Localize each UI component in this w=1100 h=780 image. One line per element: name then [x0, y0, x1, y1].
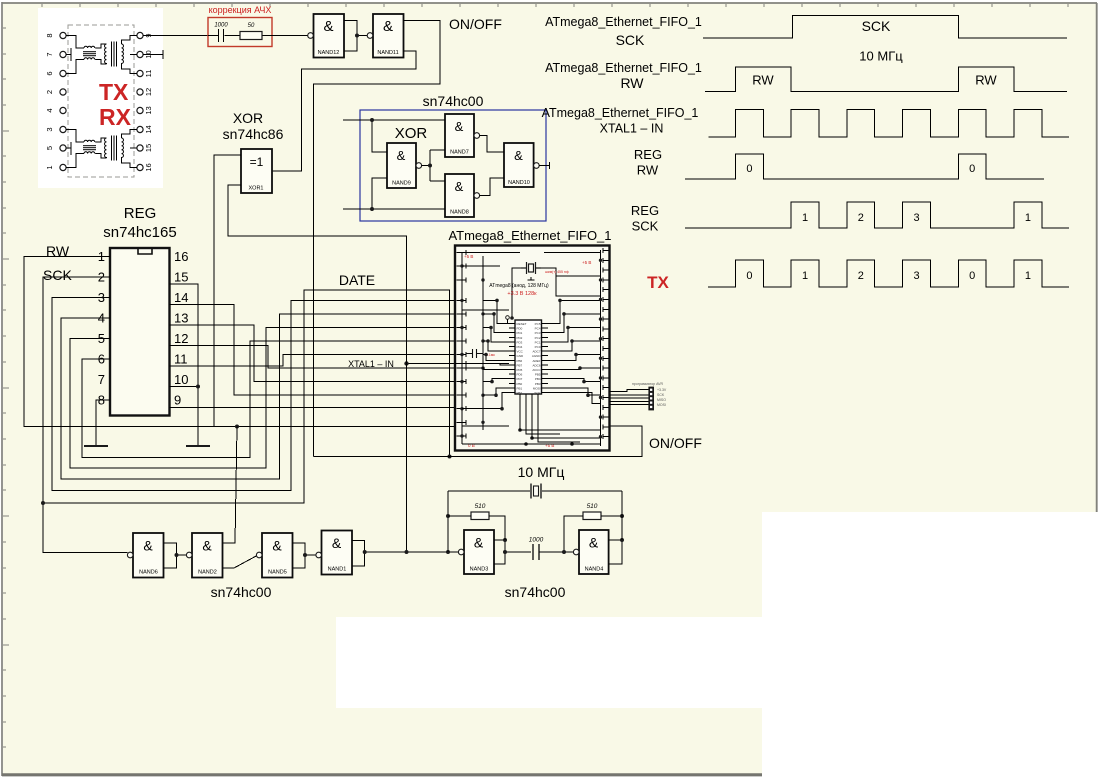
svg-text:NAND10: NAND10	[508, 180, 530, 186]
svg-text:1: 1	[1025, 270, 1031, 282]
nand gate NAND2	[192, 533, 223, 578]
svg-text:1: 1	[45, 165, 54, 169]
svg-text:4: 4	[45, 108, 54, 112]
svg-text:PD0: PD0	[517, 327, 523, 331]
svg-text:ATmega8 (анод, 128 МГц): ATmega8 (анод, 128 МГц)	[489, 283, 549, 289]
svg-text:GND: GND	[517, 354, 525, 358]
XOR1 input wire bottom to XTAL1 net	[228, 185, 407, 236]
nand gate NAND5	[262, 533, 293, 578]
oscillator right vertical	[621, 491, 623, 540]
svg-text:2: 2	[45, 90, 54, 94]
wire REG pin15 down to ground	[170, 284, 199, 445]
svg-text:12: 12	[144, 88, 153, 96]
NAND10 output wire	[539, 162, 549, 169]
svg-text:NAND7: NAND7	[450, 150, 469, 156]
svg-text:PD5: PD5	[517, 368, 523, 372]
ISP connector wires	[610, 389, 649, 404]
svg-text:3: 3	[913, 212, 919, 224]
svg-text:REG: REG	[631, 203, 659, 218]
svg-text:7: 7	[98, 372, 105, 387]
svg-text:коррекция АЧХ: коррекция АЧХ	[209, 5, 272, 15]
nand gate NAND10	[504, 143, 534, 187]
svg-text:&: &	[143, 538, 153, 554]
IC ATmega8 body	[515, 320, 542, 394]
tiny decoupling capacitor	[466, 349, 483, 358]
NAND7 output wire	[480, 136, 504, 153]
svg-text:MISO: MISO	[657, 398, 666, 402]
IC left step wires	[455, 300, 509, 408]
NAND12 input tie wires	[344, 21, 368, 52]
capacitor 1000	[533, 544, 539, 560]
svg-text:7: 7	[45, 52, 54, 56]
svg-text:RX: RX	[99, 104, 132, 130]
wire REG pin9 step to MCU	[170, 407, 456, 409]
svg-text:PB3: PB3	[535, 382, 541, 386]
NAND4 right pin ties	[609, 540, 622, 564]
resistor 510 right	[583, 512, 601, 520]
xor block input wire top	[343, 120, 445, 152]
svg-text:VCC: VCC	[517, 350, 524, 354]
transformer pin circles left	[60, 32, 66, 170]
ground symbol left	[84, 445, 108, 447]
svg-text:ADC6: ADC6	[532, 363, 540, 367]
svg-text:15: 15	[144, 144, 153, 152]
svg-text:MOSI: MOSI	[657, 403, 666, 407]
svg-text:PC5: PC5	[535, 322, 541, 326]
svg-text:NAND8: NAND8	[450, 210, 469, 216]
waveform row6 TX trace	[708, 260, 1069, 287]
svg-text:NAND9: NAND9	[392, 181, 411, 187]
nand gate NAND9	[387, 143, 416, 188]
svg-text:TX: TX	[99, 79, 129, 105]
ruler ticks top	[42, 4, 1068, 7]
svg-text:PC3: PC3	[535, 331, 541, 335]
oscillator top wire	[448, 490, 622, 492]
MCU crystal	[521, 262, 541, 274]
svg-text:SCK: SCK	[616, 32, 645, 48]
svg-text:&: &	[202, 538, 212, 554]
crystal 10 MHz	[531, 484, 541, 499]
wire REG pin13 step to MCU	[170, 325, 456, 382]
NAND8 output wire	[480, 178, 504, 196]
svg-text:PB4: PB4	[535, 377, 541, 381]
svg-text:RW: RW	[752, 73, 774, 88]
svg-text:sn74hc00: sn74hc00	[423, 93, 484, 109]
svg-text:&: &	[474, 535, 484, 551]
MCU top inner wires	[462, 253, 601, 267]
svg-text:PB7: PB7	[517, 363, 523, 367]
RX transformer windings	[66, 130, 137, 168]
svg-text:sn74hc86: sn74hc86	[223, 126, 284, 142]
svg-text:0: 0	[969, 163, 975, 175]
svg-text:&: &	[272, 538, 282, 554]
IC bottom drop wires	[462, 394, 601, 444]
svg-text:PC1: PC1	[535, 340, 541, 344]
svg-text:NAND5: NAND5	[268, 570, 287, 576]
nand gate NAND6	[133, 533, 164, 578]
ground symbol right	[186, 445, 210, 447]
blue block frame	[360, 110, 546, 221]
svg-text:PD7: PD7	[517, 377, 523, 381]
MCU left pin stubs	[457, 250, 466, 439]
svg-text:510: 510	[475, 503, 486, 510]
ISP connector body	[649, 387, 654, 410]
svg-text:RESET: RESET	[517, 322, 527, 326]
svg-text:&: &	[455, 179, 464, 194]
svg-text:PB5: PB5	[535, 373, 541, 377]
MCU right pin stubs	[603, 248, 608, 439]
wire REG pin14 step to MCU	[170, 305, 456, 396]
waveform row3 XTAL1 trace	[709, 110, 1069, 138]
svg-text:14: 14	[144, 125, 153, 133]
svg-text:5: 5	[45, 146, 54, 150]
transformer dashed body	[68, 25, 134, 177]
svg-text:NAND3: NAND3	[470, 567, 489, 573]
svg-text:SCK: SCK	[534, 391, 540, 395]
resistor 510 left	[471, 512, 489, 520]
NAND3 right pin ties	[494, 540, 531, 564]
svg-text:&: &	[323, 18, 333, 35]
wire REG pin5 loop up to MCU	[70, 328, 455, 469]
svg-text:8: 8	[45, 33, 54, 37]
svg-text:XTAL1 – IN: XTAL1 – IN	[348, 359, 394, 369]
svg-text:&: &	[455, 119, 464, 134]
extra inner horizontals	[462, 276, 601, 426]
svg-text:sn74hc00: sn74hc00	[505, 584, 566, 600]
svg-text:PD2: PD2	[517, 336, 523, 340]
svg-text:50: 50	[248, 23, 255, 29]
svg-text:&: &	[397, 148, 406, 163]
wire branch SCK to bundle	[43, 290, 450, 503]
wire REG pin2 SCK down to NAND6	[43, 277, 127, 553]
NAND2 bottom input switch diagonal	[223, 556, 257, 568]
oscillator left vertical	[447, 491, 449, 552]
svg-text:1000: 1000	[529, 537, 544, 544]
svg-text:NAND1: NAND1	[328, 567, 347, 573]
svg-text:AREF: AREF	[532, 359, 540, 363]
svg-text:14: 14	[174, 290, 188, 305]
IC notch	[138, 249, 152, 254]
nand gate NAND7	[445, 114, 474, 157]
svg-text:PD1: PD1	[517, 331, 523, 335]
IC REG body	[110, 248, 170, 416]
nand gate NAND3	[464, 530, 494, 574]
svg-text:11: 11	[174, 352, 188, 367]
svg-text:ATmega8_Ethernet_FIFO_1: ATmega8_Ethernet_FIFO_1	[545, 61, 702, 75]
svg-text:NAND6: NAND6	[139, 570, 158, 576]
svg-text:ON/OFF: ON/OFF	[449, 16, 502, 32]
svg-text:SCK: SCK	[632, 219, 659, 234]
svg-text:SCK: SCK	[43, 267, 72, 283]
wire REG pin1 RW long line	[24, 257, 455, 427]
white overlay rect bottom right	[762, 512, 1100, 780]
switch diagonal RW to NAND2	[223, 427, 238, 544]
svg-text:XOR1: XOR1	[249, 186, 264, 192]
svg-text:NAND2: NAND2	[198, 570, 217, 576]
svg-text:11: 11	[144, 70, 153, 78]
svg-text:NAND11: NAND11	[377, 50, 398, 56]
svg-text:DATE: DATE	[339, 272, 375, 288]
svg-text:13: 13	[144, 106, 153, 114]
NAND11 top input wire to ON/OFF net	[314, 21, 441, 457]
NAND5 input ties	[293, 543, 316, 568]
nand gate NAND8	[445, 174, 474, 217]
wire REG pin6 loop up to MCU	[82, 341, 455, 457]
svg-text:6: 6	[45, 71, 54, 75]
REG pin numbers right	[174, 249, 188, 408]
svg-text:&: &	[514, 148, 523, 163]
svg-text:PD6: PD6	[517, 373, 523, 377]
NAND6 input ties	[164, 543, 187, 568]
transformer white background	[38, 8, 163, 188]
svg-text:MOSI: MOSI	[533, 386, 541, 390]
nand gate NAND11	[373, 14, 404, 58]
svg-text:программатор AVR: программатор AVR	[632, 382, 663, 386]
IC tiny pin names	[517, 322, 527, 395]
svg-text:sn74hc165: sn74hc165	[103, 224, 176, 241]
svg-text:2: 2	[858, 212, 864, 224]
transformer pin numbers left (rotated)	[45, 33, 54, 169]
NAND9 output fan wires	[422, 150, 445, 181]
wire REG pin4 loop up to MCU	[61, 314, 455, 479]
svg-text:NAND4: NAND4	[585, 567, 604, 573]
svg-text:PB1: PB1	[517, 386, 523, 390]
resistor 50	[240, 32, 262, 40]
svg-text:ATmega8_Ethernet_FIFO_1: ATmega8_Ethernet_FIFO_1	[542, 106, 699, 120]
XTAL1-IN vertical	[406, 236, 408, 552]
svg-text:XOR: XOR	[233, 110, 263, 126]
svg-text:10 МГц: 10 МГц	[518, 464, 565, 480]
MCU left bus dots	[460, 264, 484, 437]
svg-text:9: 9	[174, 393, 181, 408]
right step junction dots	[484, 299, 590, 446]
svg-text:XOR: XOR	[395, 125, 428, 142]
IC pin stubs right	[542, 324, 549, 393]
svg-text:SCK: SCK	[862, 18, 891, 34]
svg-text:16: 16	[144, 163, 153, 171]
ON/OFF net under MCU	[314, 426, 643, 457]
svg-text:3: 3	[913, 270, 919, 282]
svg-text:2: 2	[858, 270, 864, 282]
svg-text:ATmega8_Ethernet_FIFO_1: ATmega8_Ethernet_FIFO_1	[448, 228, 611, 243]
svg-text:PB0: PB0	[517, 382, 523, 386]
white overlay rect bottom middle	[336, 617, 762, 708]
svg-text:510: 510	[587, 503, 598, 510]
svg-text:ADC7: ADC7	[532, 350, 540, 354]
svg-text:+5 В: +5 В	[464, 254, 473, 259]
svg-text:&: &	[332, 535, 342, 551]
svg-text:PD3: PD3	[517, 340, 523, 344]
svg-text:RW: RW	[620, 75, 644, 91]
XOR1 input wire top from RW vertical	[214, 155, 241, 427]
nand gate NAND12	[314, 14, 345, 58]
svg-text:&: &	[589, 535, 599, 551]
waveform row1 SCK trace	[703, 15, 1067, 38]
reset pin circle	[506, 316, 510, 320]
svg-text:AGND: AGND	[532, 354, 542, 358]
svg-text:PC4: PC4	[535, 327, 541, 331]
wire REG pin12 step to MCU	[170, 346, 456, 369]
nand gate NAND1	[322, 531, 353, 575]
transformer pin numbers right (rotated)	[144, 33, 153, 171]
svg-text:1: 1	[1025, 212, 1031, 224]
svg-text:RW: RW	[637, 163, 659, 178]
MCU right buses	[600, 250, 602, 446]
IC pin stubs left	[509, 324, 515, 393]
svg-text:0: 0	[746, 163, 752, 175]
svg-text:NAND12: NAND12	[318, 50, 340, 56]
svg-text:TX: TX	[647, 273, 669, 292]
waveform row5 REG SCK trace	[685, 202, 1069, 228]
wire REG pin10 join	[170, 386, 199, 388]
IC right step wires	[548, 300, 601, 403]
NAND11 bottom input wire down to XOR1 output	[272, 51, 416, 171]
svg-text:PB6: PB6	[517, 359, 523, 363]
svg-text:13: 13	[174, 311, 188, 326]
xor block input wire bottom	[343, 178, 445, 209]
REG pin numbers left	[98, 249, 105, 408]
svg-text:15: 15	[174, 270, 188, 285]
NAND1 input ties and chain wire to oscillator	[352, 541, 458, 567]
MCU right bus dots	[599, 259, 602, 439]
svg-text:ON/OFF: ON/OFF	[649, 435, 702, 451]
svg-text:0: 0	[969, 270, 975, 282]
wire REG pin3 loop up to MCU	[52, 298, 455, 491]
capacitor 1000	[219, 29, 224, 42]
svg-text:PC0: PC0	[535, 345, 541, 349]
svg-text:=1: =1	[250, 155, 264, 169]
svg-text:+5 В: +5 В	[582, 260, 591, 265]
svg-text:+3.3V: +3.3V	[657, 388, 667, 392]
wire REG pin11 step to MCU	[170, 355, 456, 367]
svg-text:sn74hc00: sn74hc00	[211, 584, 272, 600]
svg-text:шим(т) 455 пф: шим(т) 455 пф	[545, 270, 569, 274]
svg-text:&: &	[383, 18, 393, 35]
svg-text:ATmega8_Ethernet_FIFO_1: ATmega8_Ethernet_FIFO_1	[545, 15, 702, 29]
nand gate NAND4	[579, 530, 609, 574]
svg-text:REG: REG	[634, 147, 662, 162]
svg-text:10 МГц: 10 МГц	[859, 49, 903, 64]
ruler ticks left	[3, 28, 9, 747]
svg-text:PC2: PC2	[535, 336, 541, 340]
svg-text:REG: REG	[124, 205, 157, 222]
waveform row4 REG RW trace	[685, 154, 1044, 179]
XTAL1-IN wire to MCU	[407, 363, 456, 365]
TX transformer windings	[66, 36, 137, 74]
correction box frame	[208, 18, 272, 47]
xor gate XOR1	[241, 149, 272, 193]
svg-text:16: 16	[174, 249, 188, 264]
svg-text:1: 1	[802, 212, 808, 224]
svg-text:12: 12	[174, 331, 188, 346]
MCU left inner bus	[461, 253, 463, 445]
svg-text:RW: RW	[975, 73, 997, 88]
wire pin9 to correction box	[143, 35, 208, 37]
svg-text:1000: 1000	[214, 23, 228, 29]
svg-text:3: 3	[45, 127, 54, 131]
terminator stub at pin10	[143, 50, 163, 59]
transformer pin circles right	[137, 32, 143, 170]
svg-text:PD4: PD4	[517, 345, 523, 349]
RW junction dot	[235, 425, 239, 429]
svg-text:SCK: SCK	[657, 393, 665, 397]
svg-text:0: 0	[746, 270, 752, 282]
svg-text:+3.3 В 128к: +3.3 В 128к	[507, 291, 537, 297]
waveform row2 RW trace	[705, 67, 1067, 92]
svg-text:AVCC: AVCC	[532, 368, 541, 372]
MCU block body	[455, 246, 610, 451]
svg-text:1: 1	[802, 270, 808, 282]
wire through correction box	[208, 35, 218, 37]
svg-text:XTAL1 – IN: XTAL1 – IN	[600, 122, 664, 136]
wire REG pin8 to ground	[96, 400, 110, 445]
crystal connection wires	[512, 268, 601, 318]
svg-text:10: 10	[174, 372, 188, 387]
